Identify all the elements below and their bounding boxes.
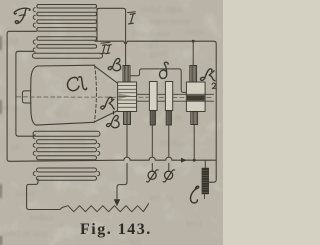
brush on slip ring 2 bbox=[166, 111, 171, 126]
shaft bbox=[137, 93, 150, 95]
svg-text:m: m bbox=[175, 112, 182, 122]
svg-text:hcs i: hcs i bbox=[186, 218, 202, 228]
svg-text:nehcl ov nem: nehcl ov nem bbox=[2, 228, 48, 238]
slip ring d (1) bbox=[149, 82, 157, 111]
brush on K2 lower bbox=[191, 112, 198, 125]
armature cone to commutator bbox=[95, 67, 117, 84]
svg-text:mlo M: mlo M bbox=[150, 192, 173, 202]
wire: coil section II end to lower coil bbox=[16, 51, 34, 136]
wire: lower commutator brush to rheostat wiper bbox=[126, 125, 128, 157]
wire: slip-ring brush 2 to terminal bbox=[168, 125, 170, 157]
arrow on bus (current direction) bbox=[181, 158, 187, 163]
svg-text:Fig. 143.: Fig. 143. bbox=[80, 221, 152, 238]
brush on K2 upper bbox=[190, 66, 197, 83]
wire: commutator upper brush to ring K2 bbox=[130, 69, 186, 93]
field coil F upper section II (3 turns) bbox=[33, 37, 103, 58]
terminal o/ (1) bbox=[148, 171, 156, 179]
svg-text:nl u: nl u bbox=[55, 108, 69, 118]
commutator K1 block bbox=[118, 82, 137, 112]
svg-text:tsgnu rentm: tsgnu rentm bbox=[150, 16, 191, 26]
svg-text:MOQ n: MOQ n bbox=[160, 138, 187, 148]
wire: C bar bottom stem bbox=[203, 194, 205, 199]
slip ring d (2) bbox=[165, 82, 172, 111]
label d (slip rings) bbox=[159, 62, 168, 78]
brush B lower (on commutator) bbox=[124, 112, 131, 125]
armature A body bbox=[31, 66, 95, 125]
field coil lower section (4 turns + 2 turns) bbox=[33, 131, 100, 160]
wire: slip-ring brush 1 to terminal bbox=[151, 125, 153, 157]
junction: K2 lower brush wire joins bus bbox=[193, 159, 196, 162]
component C bar bbox=[204, 160, 206, 168]
label K1 bbox=[101, 97, 115, 114]
wire: K2 upper brush stem bbox=[192, 41, 194, 65]
terminal o/ (2) bbox=[165, 171, 173, 179]
svg-text:nerhil: nerhil bbox=[120, 237, 140, 245]
label I bbox=[128, 11, 136, 14]
svg-text:niM: niM bbox=[4, 36, 19, 46]
resistor R (rheostat zigzag) bbox=[60, 204, 149, 212]
svg-text:redo: redo bbox=[2, 102, 17, 112]
wire: coil right bus bbox=[96, 8, 98, 41]
field coil lower section 2 bbox=[33, 168, 100, 180]
wiper arrowhead bbox=[114, 199, 121, 206]
shaft left stub bbox=[22, 91, 30, 103]
wire: K2 lower brush to bus bbox=[193, 125, 195, 160]
field coil F upper section I (4 turns) bbox=[33, 5, 96, 32]
svg-text:ei: ei bbox=[95, 182, 102, 192]
svg-text:ml: ml bbox=[10, 142, 20, 152]
armature right face (dashed ellipse edge) bbox=[94, 65, 96, 122]
label B upper bbox=[108, 58, 121, 70]
label C bbox=[191, 186, 199, 203]
brush B upper (on commutator) bbox=[123, 66, 130, 83]
svg-text:IOI: IOI bbox=[48, 76, 60, 86]
svg-text:nesse: nesse bbox=[185, 26, 204, 36]
shaft axis (dashed) bbox=[17, 96, 214, 99]
wire: tap between coil sections to left outer bus bbox=[7, 31, 36, 161]
wire II from coil section II to right-side bus bbox=[95, 41, 216, 182]
junction: wire II to K2 brush stem bbox=[192, 40, 195, 43]
label K2 bbox=[200, 69, 214, 81]
wire: long bottom bus bbox=[9, 157, 216, 161]
wire I from coil section I to commutator brush bbox=[97, 8, 126, 65]
label F (field winding) bbox=[14, 8, 30, 23]
svg-text:reba: reba bbox=[168, 4, 183, 14]
wire: lower coil end to rheostat bbox=[27, 179, 60, 210]
label B lower bbox=[107, 115, 120, 127]
label II bbox=[101, 41, 110, 44]
svg-text:nednur: nednur bbox=[30, 212, 54, 222]
svg-text:ie: ie bbox=[60, 220, 66, 230]
brush on slip ring 1 bbox=[150, 111, 155, 126]
label A (armature) bbox=[67, 77, 86, 91]
svg-text:bnietsl nov: bnietsl nov bbox=[132, 28, 170, 38]
ring K2 block bbox=[186, 82, 205, 112]
